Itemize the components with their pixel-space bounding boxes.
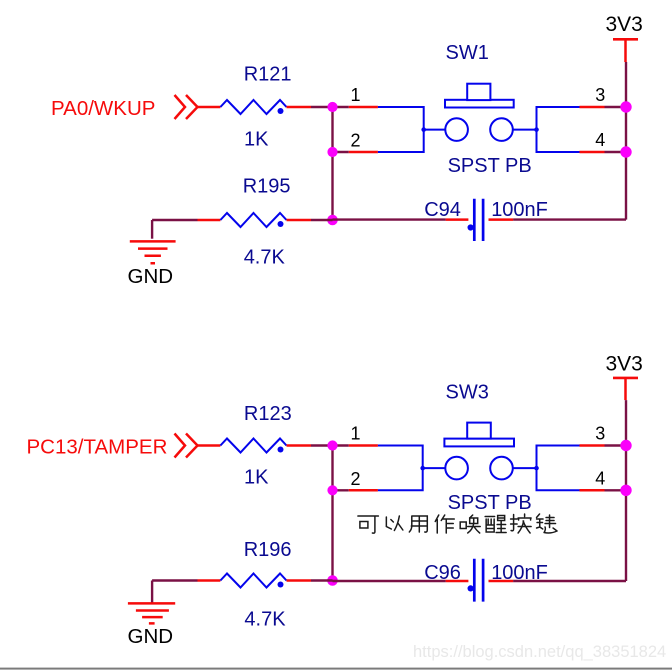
switch SW3 right contact circle [490,457,513,480]
svg-text:SPST PB: SPST PB [448,155,532,177]
switch SW3 actuator bar [444,439,514,447]
annotation text 可以用作唤醒按键 [358,514,557,533]
svg-text:SW1: SW1 [446,42,489,64]
switch SW1 right body [537,107,580,152]
capacitor C94 plates [474,199,483,241]
resistor R123 pin dot [278,447,284,453]
switch SW1 left body [378,107,424,152]
wire pin2 stub maroon [333,151,349,153]
switch SW3 right contact wire [513,467,537,469]
svg-text:SPST PB: SPST PB [448,492,532,514]
wire right bus vertical (top circuit) [625,62,627,220]
junction node dots right bus (bottom) [620,440,631,451]
wire C96 left lead red [446,580,469,583]
wire R195 left lead red [198,219,221,222]
wire pin4 stub maroon [605,151,627,153]
ground stub wire (bottom) [151,581,153,603]
wire pin4 lead red [580,151,605,154]
wire R121 right lead (red) [287,106,312,109]
svg-text:R123: R123 [244,403,292,425]
svg-text:R195: R195 [243,175,291,197]
wire left bus vertical (bottom) [331,446,333,581]
wire R123 to node (maroon) [311,444,333,446]
ground stub wire (top) [151,220,153,239]
svg-text:1: 1 [351,85,361,105]
wire pin1 stub maroon [333,444,349,446]
wire R196 to node maroon [311,579,333,581]
resistor R196 pin dot [278,582,284,588]
wire port lead (red) [198,444,221,447]
capacitor C96 pin dot [468,585,474,591]
svg-text:1K: 1K [244,129,269,151]
switch SW3 right contact dot [534,466,539,471]
svg-text:3: 3 [595,85,605,105]
svg-text:GND: GND [128,265,174,288]
capacitor C94 pin dot [468,224,474,230]
svg-text:3V3: 3V3 [606,13,643,36]
wire cap row maroon right (bottom) [513,580,626,582]
wire GND to R196 maroon [152,579,197,581]
resistor R195 pin dot [278,221,284,227]
wire pin3 stub maroon [605,444,627,446]
wire pin4 stub maroon [605,489,627,491]
switch SW1 button cap [467,84,490,100]
svg-text:4: 4 [595,130,605,150]
svg-text:4: 4 [595,469,605,489]
wire pin2 stub maroon [333,489,349,491]
switch SW3 right body [537,446,580,491]
svg-text:3: 3 [595,424,605,444]
wire left bus vertical [331,107,333,220]
wire C94 right lead red [489,218,514,221]
svg-text:1: 1 [351,424,361,444]
wire pin1 lead red [349,444,378,447]
svg-text:https://blog.csdn.net/qq_38351: https://blog.csdn.net/qq_38351824 [413,643,666,661]
wire R196 right lead red [287,579,312,582]
wire R195 to node maroon [311,219,333,221]
svg-text:4.7K: 4.7K [244,246,286,268]
wire C96 right lead red [489,580,514,583]
svg-text:PC13/TAMPER: PC13/TAMPER [27,436,168,459]
switch SW1 left contact circle [445,118,468,141]
svg-text:3V3: 3V3 [606,352,643,375]
switch SW1 left contact wire [424,129,446,131]
svg-text:C94: C94 [424,199,461,221]
ground symbol (bottom) [128,603,175,623]
switch SW3 left contact circle [445,457,468,480]
wire pin3 lead red [580,106,605,109]
wire cap row maroon left (bottom) [333,580,446,582]
wire C94 left lead red [446,218,469,221]
wire R121 to node (maroon) [311,106,333,108]
power 3V3 symbol bar (top) [613,38,638,41]
svg-text:100nF: 100nF [491,562,548,584]
wire pin2 lead red [349,151,378,154]
switch SW3 button cap [467,423,491,439]
power 3V3 symbol bar (bottom) [613,377,638,380]
wire R123 right lead (red) [287,444,312,447]
switch SW1 right contact dot [534,127,539,132]
svg-text:1K: 1K [244,467,269,489]
wire GND to R195 maroon [152,219,197,221]
switch SW1 left contact dot [421,127,426,132]
svg-text:PA0/WKUP: PA0/WKUP [51,97,155,120]
wire pin3 lead red [580,444,605,447]
resistor R196 body [220,574,286,588]
wire pin4 lead red [580,489,605,492]
svg-text:SW3: SW3 [446,382,489,404]
wire pin1 stub maroon [333,106,349,108]
svg-text:R196: R196 [244,539,292,561]
switch SW1 actuator bar [445,100,514,108]
resistor R121 body [220,100,286,114]
switch SW1 right contact wire [513,129,537,131]
switch SW3 left contact dot [420,466,425,471]
junction node dots left bus [327,102,337,112]
junction node dots left bus (bottom) [327,440,337,450]
port PC13/TAMPER connector symbol [175,434,198,458]
bottom frame border line [0,668,672,670]
wire pin1 lead red [349,106,378,109]
resistor R195 body [220,213,286,227]
wire cap row maroon left [333,218,446,220]
power 3V3 lead red [624,39,627,62]
switch SW3 left body [378,446,423,491]
ground symbol (top) [130,241,176,263]
svg-text:2: 2 [351,131,361,151]
capacitor C96 plates [474,559,483,602]
svg-text:2: 2 [351,469,361,489]
wire cap row maroon right [513,218,626,220]
junction node dots right bus [620,101,631,112]
resistor R123 body [220,439,286,453]
wire R195 right lead red [287,219,312,222]
switch SW1 right contact circle [490,118,513,141]
wire port lead (red) [198,106,221,109]
svg-text:100nF: 100nF [491,199,548,221]
wire pin2 lead red [349,489,378,492]
wire R196 left lead red [198,579,221,582]
port PA0/WKUP connector symbol [175,95,198,119]
resistor R121 pin dot [278,108,284,114]
wire pin3 stub maroon [605,106,627,108]
wire right bus vertical (bottom circuit) [625,400,627,581]
switch SW3 left contact wire [423,467,446,469]
svg-text:R121: R121 [244,64,292,86]
power 3V3 lead red (bottom) [624,378,627,400]
svg-text:GND: GND [128,625,174,648]
svg-text:4.7K: 4.7K [244,609,286,631]
